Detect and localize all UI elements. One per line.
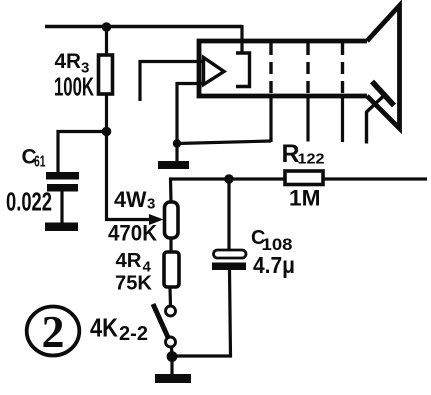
switch 4K2-2: [153, 304, 176, 347]
wiper arrow of 4W3: [149, 214, 164, 225]
node junction rail/4R3: [102, 22, 112, 32]
label 4K2-2: [90, 313, 148, 346]
resistor R122: [285, 171, 323, 185]
potentiometer 4W3: [165, 202, 179, 238]
CRT cathode gun triangle: [204, 58, 225, 85]
CRT tube envelope: [199, 6, 400, 129]
svg-text:2-2: 2-2: [119, 323, 148, 345]
svg-text:61: 61: [34, 154, 46, 171]
CRT grid g2 dashed: [269, 43, 272, 94]
svg-text:4R: 4R: [116, 250, 143, 272]
svg-text:470K: 470K: [108, 221, 157, 246]
svg-text:4R: 4R: [55, 50, 82, 73]
svg-text:75K: 75K: [115, 273, 153, 295]
wire junction to ground: [170, 356, 173, 375]
node junction cathode/ground: [173, 139, 181, 147]
CRT grid g3 dashed: [306, 43, 309, 94]
capacitor C108: [212, 250, 246, 270]
svg-text:3: 3: [147, 196, 155, 213]
wire heater lead: [140, 62, 205, 102]
svg-text:100K: 100K: [54, 72, 94, 102]
resistor 4R3: [99, 55, 113, 94]
ground under switch: [155, 374, 191, 383]
node circled 2: [27, 306, 80, 357]
label 4R3: [55, 50, 90, 77]
ground under CRT cathode: [158, 161, 189, 169]
wire anode lead: [367, 97, 384, 144]
svg-text:4.7μ: 4.7μ: [253, 252, 295, 278]
wire C108 top lead: [227, 179, 230, 251]
svg-text:122: 122: [298, 151, 325, 168]
wire C61 bottom lead: [60, 191, 63, 223]
label 4R4: [116, 250, 152, 276]
wire grid feed from rail down to CRT grid: [240, 25, 243, 53]
label 4W3: [114, 187, 155, 213]
wire 4R4 bottom lead: [168, 287, 172, 307]
svg-text:2: 2: [42, 306, 65, 357]
wire cathode to grid2 return: [177, 141, 271, 144]
wire 4R3 top lead: [105, 27, 108, 56]
wire grid g4 below neck: [341, 95, 344, 142]
svg-text:4K: 4K: [90, 313, 118, 343]
node junction output/C108: [224, 174, 234, 184]
svg-text:0.022: 0.022: [6, 187, 52, 217]
svg-text:4W: 4W: [114, 187, 147, 212]
label R122: [282, 140, 325, 168]
wire 4W3 to 4R4 lead: [169, 238, 172, 253]
CRT control grid electrode: [236, 53, 250, 87]
node junction 4R3/C61/wiper: [102, 127, 112, 137]
capacitor C61: [46, 172, 79, 192]
wire switch bottom lead: [170, 347, 174, 357]
CRT grid g4 dashed: [341, 43, 344, 94]
wire wiper feed from junction down and right: [107, 132, 151, 220]
resistor 4R4: [164, 252, 179, 287]
wire top supply rail: [45, 25, 243, 29]
wire cathode ground lead: [175, 144, 178, 163]
wire 4W3 top lead to output line: [171, 179, 428, 202]
wire grid g3 below neck: [306, 95, 309, 142]
wire C108 bottom lead: [173, 270, 231, 356]
ground under C61: [45, 223, 78, 232]
wire 4R3 bottom lead: [105, 94, 108, 132]
wire branch to C61: [58, 132, 107, 174]
wire grid g2 below neck: [269, 95, 272, 142]
node junction switch/C108/ground: [167, 351, 178, 362]
label C108: [251, 227, 293, 254]
svg-text:1M: 1M: [289, 186, 321, 211]
label C61: [22, 146, 46, 171]
wire cathode lead: [177, 84, 205, 144]
CRT anode contact stroke: [372, 82, 394, 106]
